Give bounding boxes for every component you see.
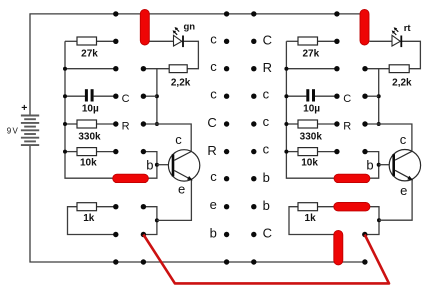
svg-text:C: C	[263, 226, 272, 241]
svg-text:R: R	[263, 60, 272, 75]
svg-text:gn: gn	[184, 21, 196, 32]
svg-text:b: b	[263, 198, 270, 213]
svg-text:R: R	[207, 143, 216, 158]
svg-text:9 V: 9 V	[7, 127, 19, 136]
svg-text:10µ: 10µ	[303, 103, 320, 114]
svg-text:2,2k: 2,2k	[392, 77, 412, 88]
svg-text:c: c	[210, 86, 217, 101]
svg-text:10k: 10k	[301, 158, 318, 169]
svg-text:C: C	[263, 33, 272, 48]
svg-text:C: C	[343, 93, 351, 105]
svg-text:27k: 27k	[81, 48, 98, 59]
svg-text:b: b	[146, 157, 153, 172]
svg-text:c: c	[210, 169, 217, 184]
svg-text:R: R	[343, 121, 351, 133]
svg-text:b: b	[210, 226, 217, 241]
svg-text:27k: 27k	[302, 48, 319, 59]
svg-text:c: c	[210, 59, 217, 74]
svg-text:e: e	[210, 197, 217, 212]
svg-text:1k: 1k	[83, 213, 95, 224]
svg-text:R: R	[122, 121, 130, 133]
svg-text:2,2k: 2,2k	[171, 77, 191, 88]
svg-text:c: c	[263, 142, 270, 157]
svg-text:10µ: 10µ	[82, 103, 99, 114]
svg-text:b: b	[263, 170, 270, 185]
svg-text:330k: 330k	[78, 131, 101, 142]
svg-text:c: c	[210, 31, 217, 46]
svg-text:10k: 10k	[80, 158, 97, 169]
svg-text:C: C	[122, 93, 130, 105]
svg-text:b: b	[366, 157, 373, 172]
svg-text:+: +	[21, 102, 27, 114]
svg-text:C: C	[207, 115, 216, 130]
svg-text:e: e	[178, 182, 185, 197]
svg-text:c: c	[400, 132, 407, 147]
svg-text:c: c	[175, 132, 182, 147]
svg-text:330k: 330k	[300, 131, 323, 142]
svg-text:1k: 1k	[305, 213, 317, 224]
svg-text:e: e	[400, 183, 407, 198]
svg-text:c: c	[263, 86, 270, 101]
svg-text:rt: rt	[404, 23, 412, 34]
svg-text:c: c	[263, 114, 270, 129]
